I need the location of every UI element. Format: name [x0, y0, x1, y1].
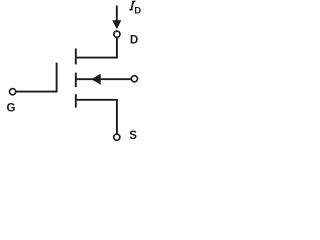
wire: gate lead	[16, 91, 58, 93]
channel bar drain segment	[75, 49, 77, 65]
gate electrode	[56, 63, 58, 93]
channel bar body segment	[75, 73, 77, 87]
body arrow (points to channel)	[91, 74, 100, 85]
terminal S circle	[114, 134, 120, 140]
wire: source lead right and down	[77, 100, 117, 134]
svg-text:S: S	[129, 130, 137, 142]
current arrow ID (down into drain)	[112, 20, 121, 29]
svg-text:D: D	[130, 35, 138, 47]
svg-text:G: G	[7, 103, 16, 115]
terminal G circle	[10, 89, 16, 95]
wire: drain lead down and left to channel	[77, 38, 117, 58]
terminal D circle	[114, 31, 120, 37]
svg-text:D: D	[134, 6, 141, 17]
wire: body lead	[77, 78, 132, 80]
label ID	[129, 1, 135, 11]
wire: drain top lead	[116, 6, 118, 22]
channel bar source segment	[75, 94, 77, 107]
terminal body circle	[131, 76, 137, 82]
